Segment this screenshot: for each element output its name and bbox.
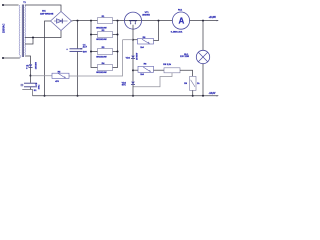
wire R9 to bottom rail	[192, 90, 194, 95]
node zener chain rail	[132, 95, 134, 97]
svg-text:1k0: 1k0	[140, 47, 144, 49]
bridge rectifier D1	[51, 12, 72, 31]
node left riser R2	[90, 34, 92, 36]
wire zener chain mid	[132, 59, 134, 71]
transformer T1 primary winding	[19, 5, 20, 58]
svg-text:10A: 10A	[42, 10, 46, 13]
trimmer R7	[138, 66, 154, 72]
svg-text:470: 470	[55, 80, 59, 83]
svg-text:+: +	[66, 49, 68, 51]
wire primary top lead	[3, 4, 19, 6]
wire bottom rail	[33, 95, 217, 97]
resistor R2	[98, 32, 113, 38]
trimmer R5	[52, 73, 69, 78]
svg-text:100u: 100u	[39, 84, 41, 89]
capacitor C1 lead bottom	[77, 52, 79, 96]
capacitor C2 plates	[24, 82, 37, 84]
wire primary bottom lead	[3, 57, 20, 59]
node rail left riser	[90, 20, 92, 22]
wire trimmer R7 to R8	[154, 69, 165, 71]
wire secondary top to bridge top	[25, 5, 61, 12]
wire VT1 base lead	[132, 25, 134, 40]
node rail trimmer riser	[158, 20, 160, 22]
svg-text:2N3055: 2N3055	[142, 15, 150, 17]
capacitor C2 lead top	[30, 76, 32, 83]
wire secondary mid tap to bridge bottom	[25, 31, 61, 38]
resistor R3	[98, 49, 113, 55]
svg-text:1N5408: 1N5408	[35, 61, 38, 69]
svg-text:0-4830-10A: 0-4830-10A	[171, 30, 183, 33]
svg-text:-13,8V: -13,8V	[209, 93, 216, 95]
resistor R9 vertical	[190, 76, 196, 90]
node AC terminal top	[2, 4, 4, 6]
wire midrail riser	[69, 40, 123, 76]
wire zener chain to bottom rail	[132, 85, 134, 96]
svg-text:R9: R9	[184, 83, 188, 85]
svg-text:R6: R6	[144, 63, 148, 65]
node R9 rail	[192, 95, 194, 97]
wire to trimmer R7	[133, 69, 138, 71]
svg-text:12V 21W: 12V 21W	[180, 56, 190, 58]
svg-text:S1: S1	[34, 90, 37, 92]
wire base to trimmer R6	[133, 39, 138, 41]
svg-text:9V1: 9V1	[122, 85, 127, 87]
wire bottom-left stub	[22, 90, 32, 96]
node midrail left	[30, 75, 32, 77]
trimmer R6	[138, 39, 154, 45]
wire base to midrail riser	[123, 39, 134, 41]
svg-text:0R15/10W: 0R15/10W	[96, 39, 107, 41]
wire secondary bottom to VD5	[25, 56, 31, 64]
zener VD2	[131, 56, 135, 59]
svg-text:AMP BRIDGE: AMP BRIDGE	[40, 13, 54, 16]
wire midrail left segment	[31, 75, 53, 77]
node bridge left to rail	[44, 95, 46, 97]
node C1 tap	[77, 20, 79, 22]
transformer T1 secondary winding	[25, 5, 26, 55]
svg-text:1k: 1k	[197, 83, 200, 85]
ammeter PA1	[172, 12, 189, 29]
transistor VT1	[125, 12, 142, 29]
capacitor C1 lead top	[77, 21, 79, 49]
lamp EL1	[196, 50, 209, 63]
node AC terminal bottom	[2, 57, 4, 59]
node trimmer R7 branch	[132, 69, 134, 71]
bottom rail arrow terminal	[217, 95, 219, 96]
node lamp rail	[202, 95, 204, 97]
svg-text:4m7: 4m7	[83, 46, 88, 49]
svg-text:50V: 50V	[83, 52, 87, 54]
wire right riser	[113, 21, 118, 68]
svg-text:5: 5	[26, 68, 28, 70]
top rail arrow terminal	[217, 20, 219, 21]
svg-text:R8 2,2k: R8 2,2k	[163, 64, 171, 66]
node C1 to bottom rail	[77, 95, 79, 97]
wire R8 right to R9 top	[180, 70, 193, 76]
wire VD5 to midrail	[30, 67, 32, 75]
svg-text:T1: T1	[23, 2, 26, 4]
resistor R8	[164, 68, 180, 73]
svg-text:PA1: PA1	[178, 9, 183, 12]
svg-text:A: A	[179, 17, 185, 26]
wire R8 wiper return	[133, 73, 172, 87]
node left riser R3	[90, 51, 92, 53]
wire left riser	[91, 21, 98, 68]
resistor R1	[98, 18, 113, 24]
capacitor C1 plates	[70, 48, 83, 50]
wire trimmer R6 right to rail	[154, 21, 159, 41]
node tap junction	[32, 37, 34, 39]
svg-text:0R15/10W: 0R15/10W	[96, 56, 107, 58]
svg-text:230VAC: 230VAC	[3, 24, 6, 33]
svg-text:15V/5W: 15V/5W	[137, 53, 139, 60]
zener chain wire lower	[132, 70, 134, 81]
node right riser R2	[117, 34, 119, 36]
wire ammeter to output	[190, 20, 217, 22]
wire lamp drop upper	[202, 21, 204, 51]
node lamp tap	[202, 20, 204, 22]
node rail right riser	[117, 20, 119, 22]
zener chain wire top	[132, 40, 134, 56]
transformer T1 core	[22, 5, 23, 58]
svg-text:0R15/10W: 0R15/10W	[96, 72, 107, 74]
diode VD5	[29, 64, 33, 67]
wire lamp to bottom rail	[202, 64, 204, 96]
node VT1 base	[132, 39, 134, 41]
svg-text:VD2: VD2	[126, 57, 131, 59]
wire bridge left vertex down to bottom rail	[45, 21, 51, 96]
svg-text:+13,8V: +13,8V	[209, 17, 217, 19]
zener VD4	[131, 82, 135, 85]
node right riser R3	[117, 51, 119, 53]
resistor R4	[98, 65, 113, 71]
wire secondary tap2 join	[25, 38, 33, 45]
wire main positive rail	[72, 20, 173, 22]
svg-text:1k5: 1k5	[140, 74, 144, 76]
terminal mark bottom-left	[21, 84, 23, 86]
